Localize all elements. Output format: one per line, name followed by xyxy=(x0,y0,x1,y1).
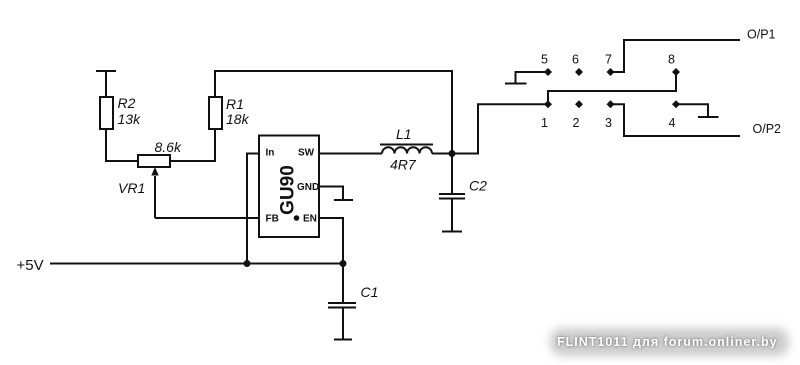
svg-text:2: 2 xyxy=(573,116,580,130)
svg-text:GU90: GU90 xyxy=(278,165,299,215)
+5V rail wire xyxy=(50,263,343,265)
ground bar at pin 5 xyxy=(505,83,527,85)
ground bar at pin 4 xyxy=(698,116,719,118)
svg-text:1: 1 xyxy=(541,116,548,130)
connector pin 5 xyxy=(541,53,552,77)
svg-text:3: 3 xyxy=(605,116,612,130)
potentiometer VR1 8.6k xyxy=(118,139,182,218)
wire pin 3 to O/P2 xyxy=(611,104,741,136)
svg-text:EN: EN xyxy=(303,214,317,225)
svg-text:In: In xyxy=(266,148,275,159)
capacitor C1 xyxy=(328,264,378,340)
svg-text:13k: 13k xyxy=(118,111,142,127)
svg-text:4R7: 4R7 xyxy=(390,157,417,173)
wire FB pin to VR1 wiper xyxy=(155,217,259,219)
svg-text:SW: SW xyxy=(298,148,315,159)
svg-text:O/P1: O/P1 xyxy=(747,28,776,42)
connector pin 4 xyxy=(669,100,680,130)
net label O/P2 xyxy=(753,122,782,136)
connector pin 1 xyxy=(541,100,552,130)
svg-text:7: 7 xyxy=(605,53,612,67)
connector pin 7 xyxy=(605,53,614,77)
connector pin 6 xyxy=(572,53,583,77)
junction node A xyxy=(449,150,456,157)
svg-text:R2: R2 xyxy=(118,95,136,111)
wire pin 8 to pin 1 xyxy=(548,72,676,104)
junction EN/C1/rail xyxy=(340,260,347,267)
wire pin 5 to ground xyxy=(516,72,549,84)
connector pin 8 xyxy=(668,53,680,77)
wire GND pin xyxy=(319,187,343,201)
+5V label xyxy=(17,257,44,274)
wire VR1 right to R1 bottom xyxy=(170,129,215,161)
junction In/rail xyxy=(244,260,251,267)
svg-text:FLINT1011 для forum.onliner.by: FLINT1011 для forum.onliner.by xyxy=(557,335,778,349)
wire EN pin to +5V rail xyxy=(319,218,343,264)
svg-text:R1: R1 xyxy=(226,96,244,112)
wire node A to connector pin 1 xyxy=(452,104,548,153)
wire R2 bottom to VR1 left xyxy=(106,129,138,161)
svg-text:GND: GND xyxy=(297,182,319,193)
ground bar at IC GND xyxy=(334,199,353,201)
resistor R2 13k xyxy=(100,95,141,129)
watermark band xyxy=(550,328,789,356)
svg-text:VR1: VR1 xyxy=(118,180,145,196)
IC U1 GU90 xyxy=(259,136,319,238)
svg-text:8.6k: 8.6k xyxy=(155,139,182,155)
supply terminal bar above R2 xyxy=(96,71,116,97)
capacitor C2 xyxy=(439,154,487,232)
connector pin 2 xyxy=(573,100,583,130)
svg-text:O/P2: O/P2 xyxy=(753,122,782,136)
svg-text:4: 4 xyxy=(669,116,676,130)
svg-text:18k: 18k xyxy=(226,111,250,127)
wire In pin to +5V rail xyxy=(247,154,259,264)
svg-text:5: 5 xyxy=(541,53,548,67)
svg-text:6: 6 xyxy=(572,53,579,67)
svg-text:L1: L1 xyxy=(396,126,412,142)
wire SW pin to L1 xyxy=(319,153,382,155)
ground bar at C2 xyxy=(442,231,462,233)
connector pin 3 xyxy=(605,100,614,130)
ground bar at C1 xyxy=(334,339,352,341)
svg-text:C1: C1 xyxy=(361,284,379,300)
wire pin 4 to ground xyxy=(676,104,708,117)
wire pin 7 to O/P1 xyxy=(611,40,741,72)
wire L1 to node A xyxy=(432,153,452,155)
svg-text:+5V: +5V xyxy=(17,257,44,274)
svg-text:C2: C2 xyxy=(469,178,487,194)
wire R1 top across to node A xyxy=(215,71,452,154)
inductor L1 4R7 xyxy=(380,126,433,173)
svg-text:8: 8 xyxy=(668,53,675,67)
net label O/P1 xyxy=(747,28,776,42)
resistor R1 18k xyxy=(209,96,250,129)
